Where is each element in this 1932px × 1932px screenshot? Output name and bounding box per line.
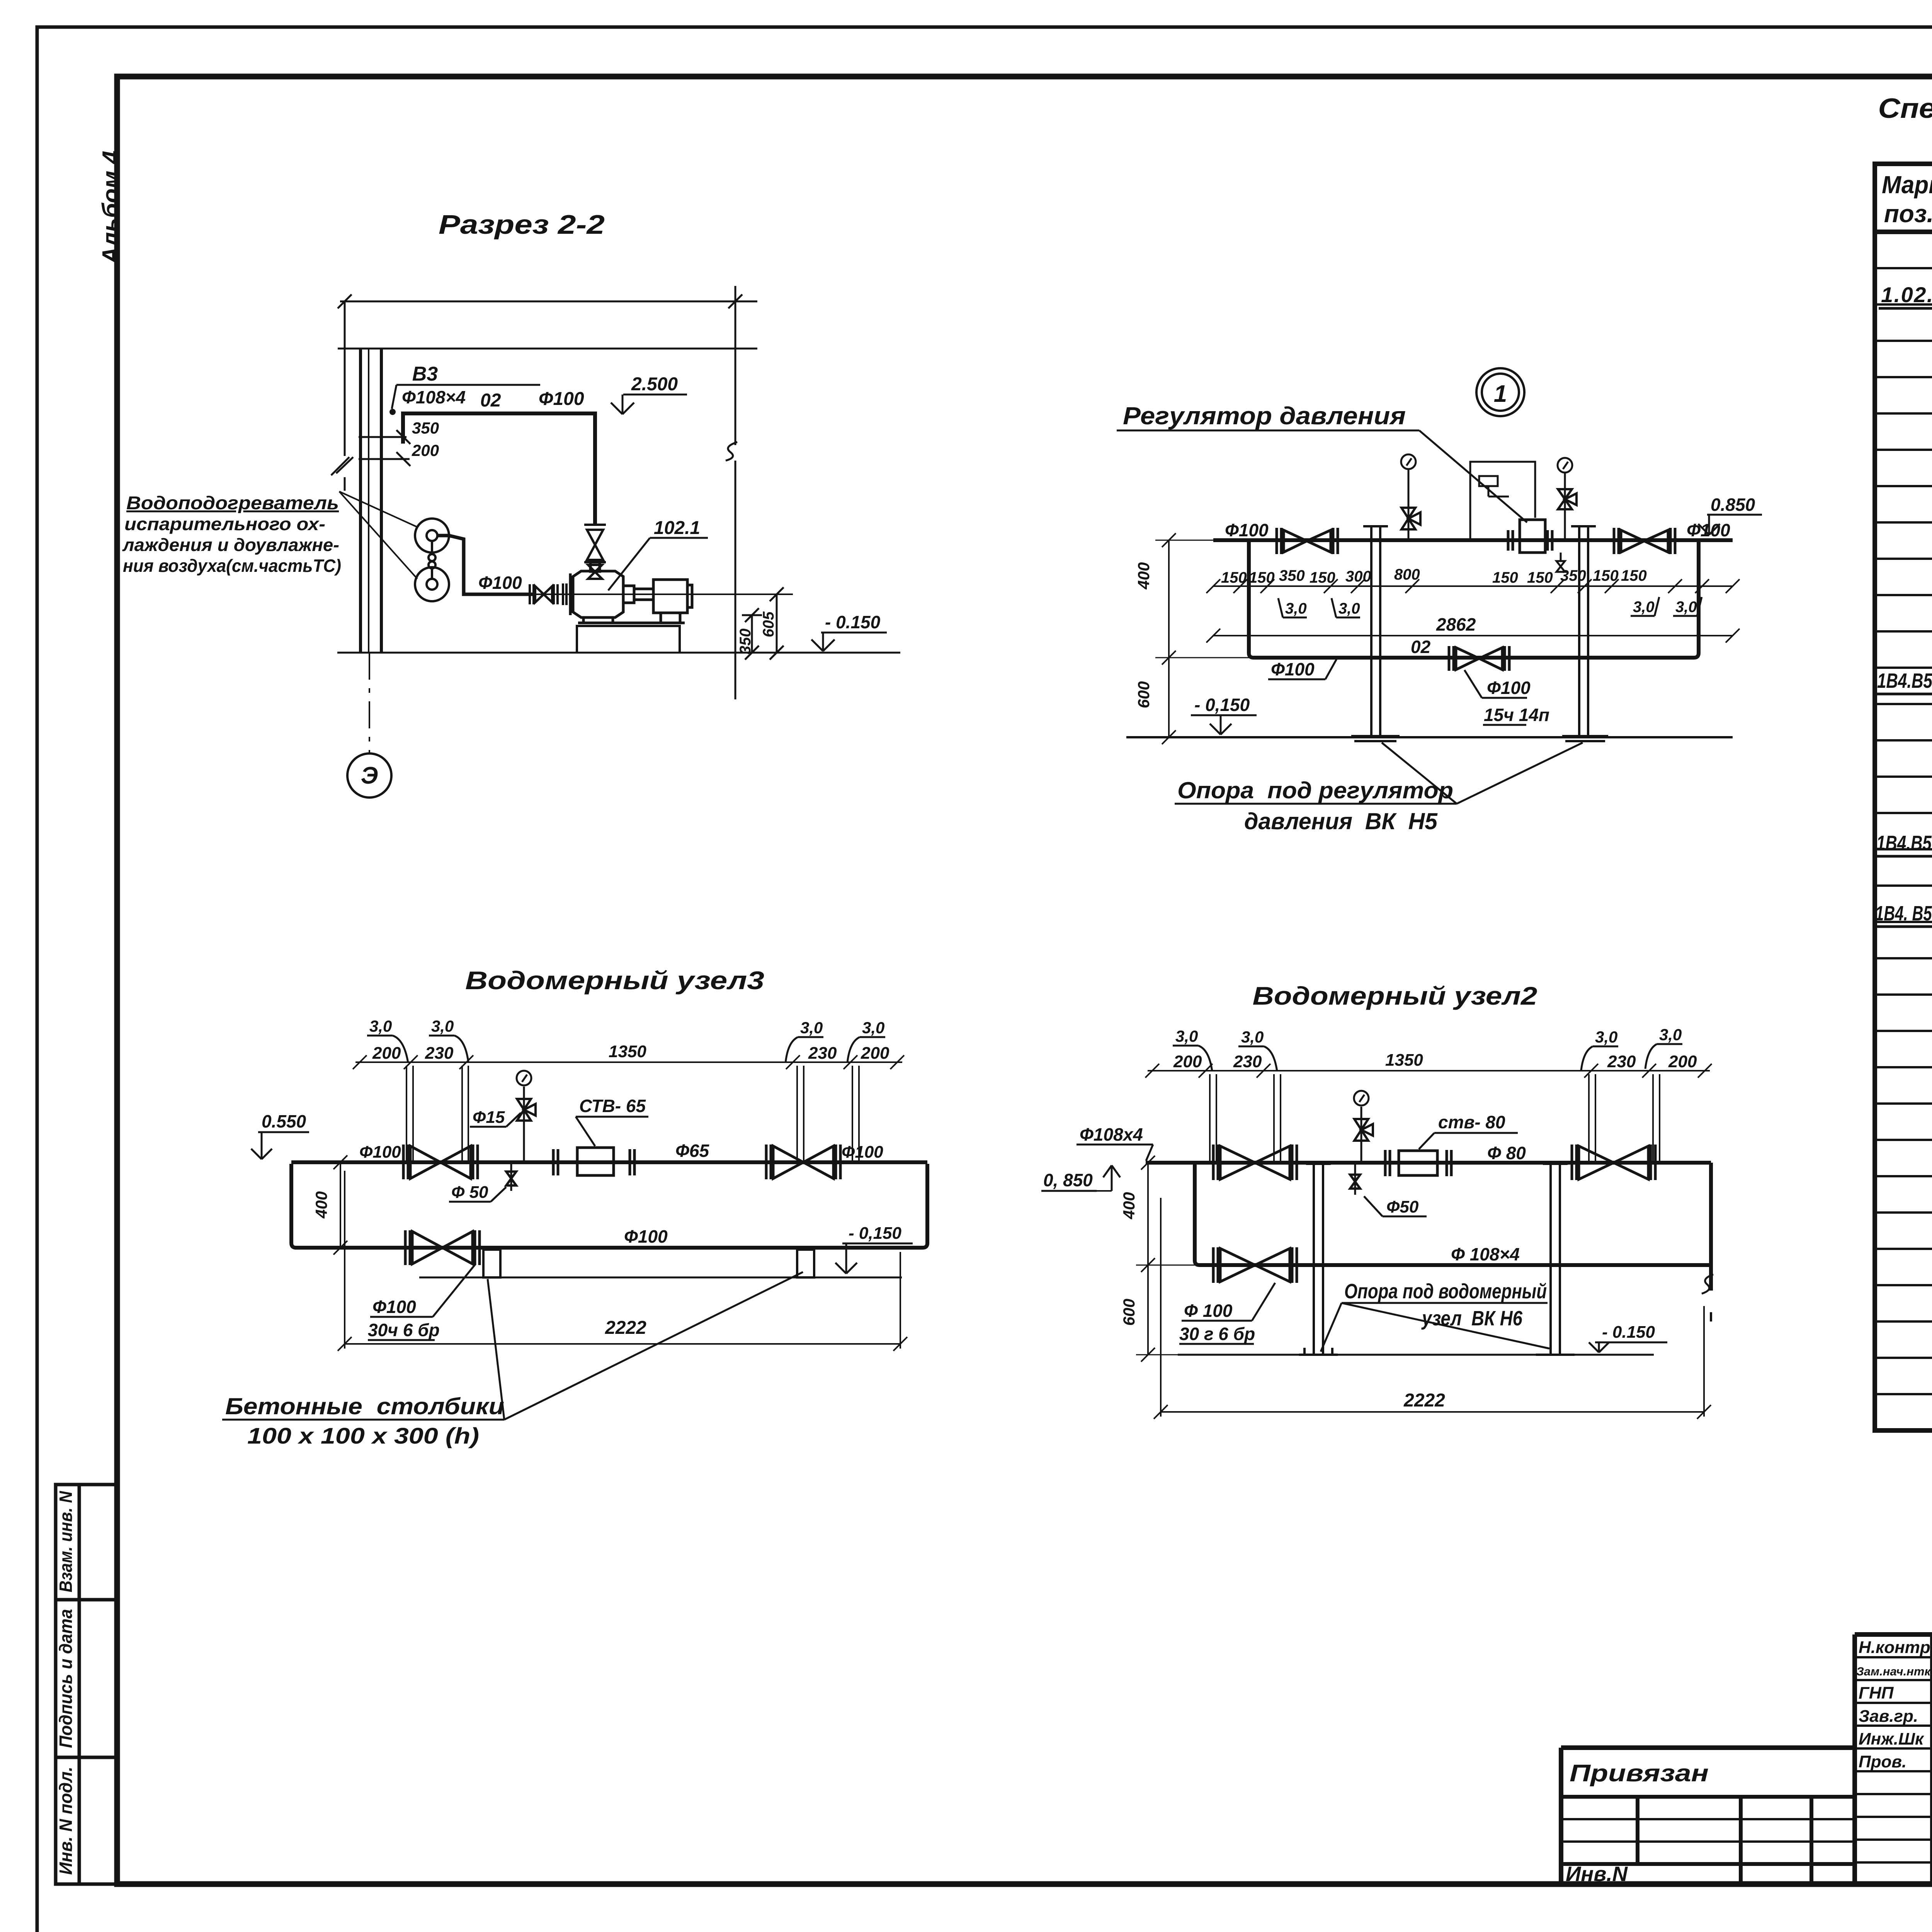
svg-text:230: 230 (1607, 1052, 1636, 1071)
svg-text:Спецификация установок систем: Спецификация установок систем водопровод… (1878, 93, 1932, 124)
water meter stv-80 (1385, 1150, 1451, 1176)
svg-text:Н.контр.: Н.контр. (1859, 1638, 1932, 1657)
bypass pipe 02 (1249, 542, 1699, 658)
left valve (1277, 528, 1338, 554)
main pipe (1146, 1161, 1711, 1165)
floor line (337, 652, 900, 654)
extension flange pairs (1210, 1074, 1660, 1161)
signature table row lines (1855, 1657, 1932, 1862)
manometer 1 riser (1401, 454, 1420, 540)
2222 dim (338, 1171, 907, 1351)
svg-text:102.1: 102.1 (654, 518, 700, 538)
svg-text:350: 350 (1279, 567, 1305, 584)
svg-text:Ф100: Ф100 (372, 1297, 416, 1317)
F50 leader (1364, 1196, 1427, 1216)
svg-text:2222: 2222 (1403, 1390, 1445, 1411)
heater circles (415, 519, 449, 601)
concrete post 1 (483, 1250, 500, 1277)
svg-text:Водоподогреватель: Водоподогреватель (126, 493, 339, 514)
svg-text:400: 400 (312, 1191, 330, 1219)
underline 1.02.1 (1879, 307, 1932, 310)
svg-text:150: 150 (1527, 569, 1553, 586)
svg-text:3,0: 3,0 (1633, 599, 1655, 616)
heater connection pipe (437, 536, 468, 594)
svg-text:300: 300 (1345, 568, 1371, 585)
svg-text:Ф100: Ф100 (1687, 520, 1730, 540)
betonnye stolbiki underline + leaders (222, 1272, 803, 1420)
level mark 0.850 (1698, 515, 1762, 535)
F100 30g leader (1179, 1283, 1275, 1344)
detail mark circle 1 (1476, 368, 1524, 416)
svg-text:3,0: 3,0 (1659, 1026, 1682, 1044)
wall break symbol (331, 457, 349, 475)
svg-text:3,0: 3,0 (1675, 599, 1697, 616)
F15 leader (470, 1113, 521, 1127)
svg-text:3,0: 3,0 (1595, 1028, 1617, 1046)
valve 2 with flanges (766, 1145, 840, 1179)
svg-text:Ф 100: Ф 100 (1184, 1301, 1233, 1321)
svg-text:150: 150 (1310, 569, 1335, 586)
level -0.150 (1589, 1342, 1667, 1352)
opora label underline + leaders (1175, 743, 1583, 804)
svg-text:150: 150 (1593, 567, 1619, 584)
svg-text:150: 150 (1492, 569, 1518, 586)
svg-text:3,0: 3,0 (1338, 600, 1360, 617)
main pipe (291, 1160, 927, 1164)
svg-text:ств- 80: ств- 80 (1438, 1112, 1505, 1132)
table outline (1875, 164, 1932, 1430)
svg-text:Привязан: Привязан (1570, 1760, 1709, 1787)
suction valve with flanges (530, 583, 566, 605)
svg-text:- 0,150: - 0,150 (849, 1224, 902, 1243)
svg-text:02: 02 (1411, 637, 1431, 657)
signature table border verticals (1852, 1634, 1857, 1884)
manometer riser (517, 1071, 536, 1162)
svg-text:Альбом 4: Альбом 4 (98, 151, 124, 265)
underline item ids (1876, 693, 1932, 696)
motor centerline (533, 594, 793, 595)
right small dims 350 605 (742, 587, 784, 660)
row lines (1875, 268, 1932, 1394)
bypass valve (1449, 646, 1509, 671)
svg-text:230: 230 (808, 1044, 837, 1063)
regulator drain (1556, 553, 1565, 572)
svg-text:1: 1 (1494, 381, 1507, 407)
svg-text:Опора под регулятор: Опора под регулятор (1177, 777, 1453, 803)
svg-text:600: 600 (1120, 1299, 1138, 1326)
svg-text:1В4.В5.1: 1В4.В5.1 (1877, 669, 1932, 692)
svg-text:230: 230 (425, 1044, 454, 1063)
svg-text:200: 200 (412, 441, 439, 459)
left privyazan block (1559, 1748, 1563, 1884)
level -0.150 (835, 1243, 913, 1274)
svg-text:2222: 2222 (605, 1318, 646, 1338)
svg-text:Ф100: Ф100 (478, 573, 522, 593)
svg-text:Инж.Шк: Инж.Шк (1859, 1730, 1925, 1748)
svg-text:1350: 1350 (1385, 1051, 1423, 1070)
valve 1 with flanges (403, 1145, 478, 1179)
svg-text:0.550: 0.550 (262, 1111, 306, 1131)
title block top line (1855, 1632, 1932, 1637)
drain valve (506, 1162, 516, 1191)
svg-text:Ф108×4: Ф108×4 (402, 387, 466, 407)
svg-text:испарительного ох-: испарительного ох- (124, 514, 325, 534)
svg-text:Ф100: Ф100 (1225, 520, 1269, 540)
label shelf VZ F108x4 (392, 385, 540, 409)
left vertical dim line (1155, 533, 1249, 744)
svg-text:400: 400 (1120, 1192, 1138, 1219)
svg-text:1350: 1350 (609, 1042, 646, 1061)
level mark 2.500 (611, 395, 687, 414)
svg-text:Водомерный узел2: Водомерный узел2 (1253, 981, 1537, 1010)
400 dim vertical (333, 1155, 347, 1255)
svg-text:Взам. инв. N: Взам. инв. N (56, 1491, 76, 1592)
svg-text:230: 230 (1233, 1052, 1262, 1071)
svg-text:350: 350 (737, 629, 754, 655)
svg-text:Пров.: Пров. (1859, 1752, 1906, 1771)
svg-text:Опора под водомерный: Опора под водомерный (1344, 1280, 1547, 1303)
bypass valve 3 (405, 1230, 480, 1265)
support R (1536, 1163, 1575, 1355)
svg-text:3,0: 3,0 (1285, 600, 1307, 617)
svg-text:- 0.150: - 0.150 (1602, 1323, 1655, 1342)
svg-text:Э: Э (361, 762, 378, 789)
svg-text:Инв. N подл.: Инв. N подл. (56, 1767, 76, 1875)
svg-text:Ф100: Ф100 (1487, 678, 1531, 698)
valve 2 with flanges (1572, 1145, 1655, 1180)
right drop pipe with break (1709, 1163, 1713, 1291)
top dimension line (336, 286, 900, 699)
main pipe (1213, 538, 1733, 542)
dim chain 1 (1206, 579, 1740, 593)
svg-text:Ф100: Ф100 (842, 1143, 883, 1162)
400/600 dim vertical (1136, 1156, 1195, 1362)
regulator valve body (1508, 520, 1552, 553)
extension flange pairs (406, 1066, 859, 1161)
svg-text:30ч 6 бр: 30ч 6 бр (368, 1320, 440, 1340)
dim ticks 350 200 (359, 430, 410, 466)
svg-text:Инв.N: Инв.N (1566, 1862, 1628, 1886)
drain valve (1350, 1163, 1360, 1195)
manometer riser (1354, 1091, 1373, 1163)
F100 30ch leader (368, 1264, 475, 1340)
svg-text:лаждения и доувлажне-: лаждения и доувлажне- (122, 535, 339, 555)
svg-text:3,0: 3,0 (369, 1017, 392, 1035)
svg-text:Марка: Марка (1882, 171, 1932, 199)
svg-text:Ф 50: Ф 50 (451, 1183, 488, 1202)
manometer 2 riser (1558, 458, 1577, 540)
floor line (1126, 736, 1733, 738)
svg-text:3,0: 3,0 (1241, 1028, 1264, 1046)
svg-text:Подпись и дата: Подпись и дата (56, 1609, 76, 1748)
valve 1 with flanges (1213, 1145, 1297, 1180)
foundation block (577, 626, 680, 653)
pipe 02 F100 horizontal (403, 413, 595, 524)
floor line (1178, 1354, 1654, 1356)
level mark 0.550 (251, 1132, 309, 1159)
svg-text:Ф100: Ф100 (1271, 659, 1315, 679)
regulator impulse frame (1470, 462, 1535, 540)
top dim chain (1145, 1064, 1712, 1078)
right valve (1614, 528, 1675, 554)
svg-text:Ф65: Ф65 (675, 1141, 709, 1161)
stv-80 label underline leader (1419, 1133, 1518, 1149)
svg-text:- 0.150: - 0.150 (825, 612, 881, 632)
svg-text:Водомерный узел3: Водомерный узел3 (465, 966, 764, 995)
3,0 underlines hooks (1173, 1044, 1682, 1071)
level mark 0,850 up arrow (1041, 1165, 1120, 1191)
top dim chain (353, 1055, 904, 1069)
2222 dim (1154, 1198, 1711, 1419)
svg-text:600: 600 (1134, 681, 1153, 708)
svg-text:3,0: 3,0 (431, 1017, 454, 1035)
svg-text:1.02.1: 1.02.1 (1881, 282, 1932, 307)
3,0 underlines hooks (367, 1036, 885, 1063)
F50 leader (449, 1187, 506, 1202)
wall lines (359, 349, 362, 653)
svg-text:Ф 80: Ф 80 (1487, 1143, 1526, 1163)
svg-text:1В4.В5.2: 1В4.В5.2 (1876, 832, 1932, 855)
svg-text:Ф100: Ф100 (539, 389, 584, 409)
axis circle E (347, 753, 391, 798)
svg-text:150: 150 (1249, 569, 1275, 586)
bypass pipe (291, 1164, 927, 1248)
level mark -0.150 low (1191, 715, 1257, 735)
svg-text:2.500: 2.500 (631, 374, 678, 395)
svg-text:150: 150 (1621, 567, 1647, 584)
suction pipe (468, 593, 533, 596)
dim chain 2862 (1206, 629, 1740, 643)
svg-text:400: 400 (1134, 562, 1153, 590)
opora label underline + leaders (1321, 1303, 1549, 1352)
svg-text:02: 02 (480, 390, 501, 411)
water meter STV-65 (553, 1148, 634, 1175)
svg-text:поз.: поз. (1884, 200, 1932, 228)
svg-text:давления ВК Н5: давления ВК Н5 (1244, 808, 1438, 834)
F100 bypass label underline leader (1268, 658, 1337, 679)
svg-text:узел ВК Н6: узел ВК Н6 (1421, 1307, 1522, 1330)
svg-text:3,0: 3,0 (1175, 1027, 1198, 1045)
header bottom line (1875, 230, 1932, 234)
leader lines to heater (339, 492, 417, 579)
svg-text:Ф50: Ф50 (1386, 1197, 1419, 1216)
svg-text:В3: В3 (412, 363, 438, 385)
svg-text:100 х 100 х 300 (h): 100 х 100 х 300 (h) (247, 1423, 479, 1449)
svg-text:0, 850: 0, 850 (1043, 1170, 1093, 1190)
support L (1299, 1163, 1338, 1355)
svg-text:2862: 2862 (1436, 614, 1476, 634)
svg-text:200: 200 (1173, 1052, 1202, 1071)
svg-text:Регулятор давления: Регулятор давления (1123, 402, 1406, 430)
svg-text:3,0: 3,0 (800, 1019, 823, 1037)
label underline and leader (1117, 430, 1419, 432)
svg-text:Ф 108×4: Ф 108×4 (1451, 1244, 1520, 1264)
svg-text:350: 350 (412, 419, 439, 437)
left drop + bypass pipe (1195, 1164, 1711, 1265)
svg-text:Бетонные столбики: Бетонные столбики (225, 1393, 504, 1419)
svg-text:15ч 14п: 15ч 14п (1484, 705, 1549, 725)
svg-text:Ф108х4: Ф108х4 (1080, 1124, 1143, 1145)
STV-65 label underline leader (576, 1117, 648, 1146)
svg-text:1В4. В5.3: 1В4. В5.3 (1875, 902, 1932, 925)
bypass valve 3 (1213, 1247, 1297, 1283)
right axis line with break (735, 286, 736, 445)
svg-text:Зав.гр.: Зав.гр. (1859, 1707, 1918, 1726)
F108x4 label underline leader (1077, 1145, 1153, 1161)
svg-text:3,0: 3,0 (862, 1019, 884, 1037)
support 2 (1562, 526, 1608, 741)
svg-text:Ф100: Ф100 (624, 1226, 668, 1247)
pump unit (570, 562, 692, 623)
label shelf 102.1 (608, 538, 708, 590)
svg-text:Зам.нач.нтк: Зам.нач.нтк (1856, 1665, 1931, 1678)
svg-text:200: 200 (1668, 1052, 1697, 1071)
valve on vertical pipe (584, 525, 606, 579)
left margin column boxes (56, 1485, 117, 1884)
concrete post 2 (797, 1250, 814, 1277)
svg-text:- 0,150: - 0,150 (1194, 695, 1250, 715)
svg-text:0.850: 0.850 (1711, 495, 1755, 515)
svg-text:200: 200 (861, 1044, 889, 1063)
svg-text:ния воздуха(см.частьТС): ния воздуха(см.частьТС) (123, 556, 341, 576)
svg-text:Ф15: Ф15 (473, 1108, 505, 1127)
svg-text:200: 200 (372, 1044, 401, 1063)
svg-text:СТВ- 65: СТВ- 65 (579, 1096, 646, 1116)
level mark -0.150 (811, 633, 887, 651)
svg-text:605: 605 (760, 611, 777, 637)
svg-text:Ф100: Ф100 (359, 1143, 401, 1162)
svg-text:150: 150 (1221, 569, 1247, 586)
ground line (419, 1277, 902, 1279)
svg-text:350: 350 (1560, 567, 1586, 584)
left extension line with break (344, 301, 346, 456)
3,0 underlines (1278, 597, 1702, 617)
svg-text:800: 800 (1394, 566, 1420, 583)
svg-text:Разрез 2-2: Разрез 2-2 (439, 209, 605, 240)
svg-text:30 г 6 бр: 30 г 6 бр (1179, 1324, 1255, 1344)
15ch label leader (1464, 670, 1527, 725)
axis dash-dot to E circle (369, 653, 370, 753)
support 1 (1351, 526, 1400, 741)
svg-text:ГНП: ГНП (1859, 1684, 1894, 1702)
